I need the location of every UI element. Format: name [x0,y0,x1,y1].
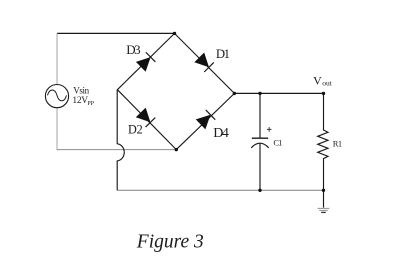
svg-text:C1: C1 [273,138,282,148]
svg-text:Figure 3: Figure 3 [136,231,204,252]
svg-text:D2: D2 [128,123,143,137]
svg-text:D4: D4 [213,126,229,141]
svg-text:PP: PP [87,101,94,107]
svg-text:12V: 12V [72,96,88,106]
svg-text:Vsin: Vsin [73,85,89,95]
svg-text:V: V [313,74,322,88]
svg-text:R1: R1 [333,139,342,149]
svg-text:D3: D3 [126,42,140,57]
svg-text:D1: D1 [216,47,230,61]
svg-text:out: out [322,79,333,88]
